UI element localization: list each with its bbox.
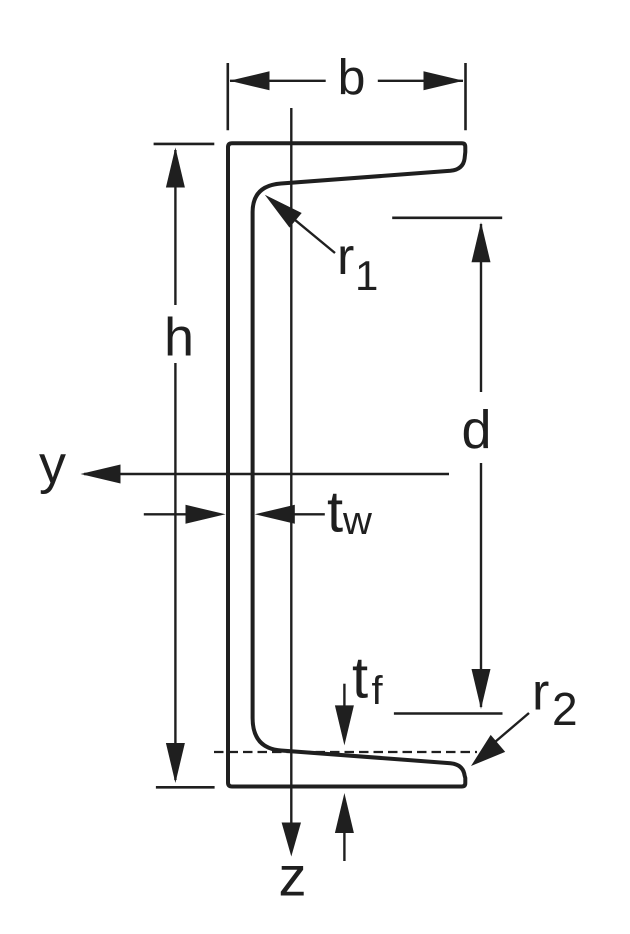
svg-text:z: z (279, 845, 307, 908)
svg-text:b: b (338, 50, 366, 106)
svg-text:r: r (337, 228, 354, 286)
svg-text:2: 2 (552, 683, 578, 735)
svg-text:f: f (372, 669, 384, 713)
svg-text:h: h (164, 308, 194, 368)
svg-text:1: 1 (355, 252, 378, 299)
svg-text:r: r (532, 664, 549, 722)
svg-text:t: t (352, 646, 368, 711)
svg-text:t: t (327, 480, 343, 545)
svg-text:y: y (39, 435, 66, 495)
svg-text:w: w (342, 499, 372, 543)
svg-text:d: d (461, 400, 491, 460)
